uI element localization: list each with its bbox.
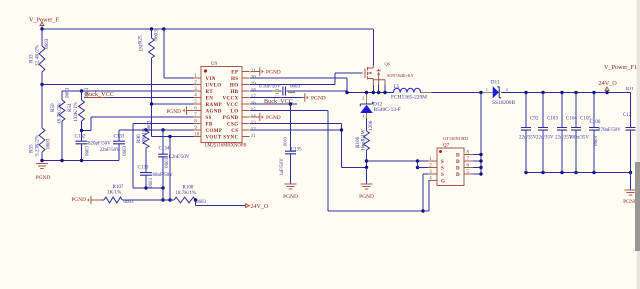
svg-text:SS: SS [206, 116, 212, 121]
wire comp bottom [133, 187, 163, 189]
svg-text:C135: C135 [291, 148, 302, 153]
pin 1 VIN [194, 77, 202, 79]
wire COMP [119, 129, 194, 131]
pin 7 D Q7 [464, 160, 473, 162]
svg-text:EN: EN [206, 96, 214, 101]
inductor L5 FCH1365-220M [393, 88, 420, 92]
svg-text:10: 10 [194, 132, 200, 137]
svg-text:0603: 0603 [85, 146, 90, 157]
svg-text:16mR/1W: 16mR/1W [361, 129, 367, 151]
wire Q6 sources to SW [372, 85, 374, 93]
svg-text:VOUT: VOUT [206, 135, 222, 140]
svg-text:22u/35V: 22u/35V [519, 136, 537, 141]
wire VCC Buck_VCC [250, 103, 297, 105]
wire to 24V_O port [194, 198, 197, 201]
wire R106 to Q7 sources [367, 160, 418, 162]
svg-text:COMP: COMP [206, 129, 223, 134]
svg-text:Buck_VCC: Buck_VCC [264, 98, 293, 105]
svg-text:LM25116MHXNOPB: LM25116MHXNOPB [205, 143, 247, 148]
svg-text:R108: R108 [183, 186, 194, 191]
op-amp U1 IC U9 LM25116 body [201, 67, 242, 143]
svg-text:2: 2 [506, 87, 508, 92]
resistor R54 [81, 91, 83, 100]
svg-text:0603: 0603 [124, 200, 135, 205]
resistor R33 [41, 29, 43, 46]
svg-text:PGND: PGND [266, 115, 281, 121]
pin 3 RT [194, 90, 202, 92]
pin 5 RAMP [194, 103, 202, 105]
svg-text:SYNC: SYNC [223, 135, 238, 140]
svg-text:1206: 1206 [368, 120, 374, 131]
capacitor C103 [542, 93, 544, 128]
svg-text:1: 1 [362, 114, 364, 119]
svg-text:VIN: VIN [206, 77, 216, 82]
svg-text:C131: C131 [275, 87, 280, 98]
wire Q7 drains [480, 93, 482, 175]
svg-text:S: S [441, 173, 444, 178]
ground PGND under R106 [361, 184, 373, 189]
svg-text:11: 11 [251, 134, 256, 139]
svg-text:24V_O: 24V_O [251, 204, 269, 210]
svg-text:C104: C104 [566, 117, 577, 122]
capacitor C131 bootstrap [250, 90, 282, 92]
ground PGND under C135 [285, 184, 297, 189]
wire CS [250, 129, 342, 131]
svg-text:0603: 0603 [147, 120, 153, 131]
svg-text:LO: LO [230, 109, 238, 114]
pin 4 G Q7 [428, 180, 437, 182]
wire FB net [133, 123, 194, 125]
transistor Q7 GT130N10D3 body [437, 148, 464, 186]
svg-text:C132: C132 [75, 135, 86, 140]
pin 7 SS [194, 116, 202, 118]
svg-text:HO: HO [230, 83, 239, 88]
svg-text:Q7: Q7 [443, 144, 450, 149]
svg-text:Q6: Q6 [385, 62, 391, 67]
svg-text:B540C-13-F: B540C-13-F [374, 107, 401, 113]
pin 8 FB [194, 123, 202, 125]
transistor Q6 [364, 69, 366, 79]
svg-text:V_Power_F1: V_Power_F1 [604, 64, 637, 71]
pin 11 SYNC [242, 136, 250, 138]
pin 17 VCCX [242, 97, 250, 99]
wire top rail VIN [42, 28, 373, 30]
pin 5 D Q7 [464, 173, 473, 175]
svg-text:R50: R50 [50, 103, 56, 112]
svg-text:32.4K/2%: 32.4K/2% [35, 44, 41, 66]
svg-text:18.7K/1%: 18.7K/1% [176, 191, 196, 196]
capacitor C134 [162, 130, 164, 154]
pin 2 UVLO [194, 84, 202, 86]
pin 6 AGND [194, 110, 202, 112]
resistor R106 [364, 131, 370, 150]
svg-text:2: 2 [362, 96, 364, 101]
pin 9 COMP [194, 129, 202, 131]
svg-text:18.7K/2%: 18.7K/2% [57, 102, 63, 124]
pin 1 S Q7 [428, 160, 437, 162]
wire Q7 pin3 [423, 173, 428, 175]
wire SS jog [91, 116, 194, 118]
svg-text:R107: R107 [113, 185, 124, 190]
capacitor C104 [561, 93, 563, 128]
svg-text:C133: C133 [114, 135, 125, 140]
wire CSG [250, 123, 342, 125]
svg-text:0603: 0603 [149, 178, 154, 189]
svg-text:PGND: PGND [71, 197, 86, 203]
node top rail junctions [40, 27, 43, 30]
svg-text:CSG: CSG [227, 122, 238, 127]
wire UVLO net [42, 84, 194, 86]
port 24V_O [246, 204, 250, 208]
svg-text:GT130N10D3: GT130N10D3 [443, 136, 469, 141]
diode D11 SS10200B [483, 92, 493, 94]
pin 14 PGND [242, 116, 250, 118]
svg-text:1M: 1M [139, 44, 145, 52]
svg-text:D: D [456, 173, 460, 178]
svg-text:RT: RT [206, 90, 214, 95]
wire Q6 drain [372, 29, 374, 65]
svg-text:24V_O: 24V_O [599, 80, 618, 87]
resistor R55 [41, 85, 43, 129]
wire VOUT drop [169, 137, 171, 201]
svg-text:PGND: PGND [311, 96, 326, 102]
pin 18 HB [242, 90, 250, 92]
svg-text:D: D [456, 167, 460, 172]
svg-text:VCCX: VCCX [222, 96, 238, 101]
wire LO route to Q7 gate [327, 111, 329, 212]
svg-text:U9: U9 [211, 62, 218, 67]
svg-text:C92: C92 [530, 117, 539, 122]
pin 12 CS [242, 129, 250, 131]
svg-text:R25: R25 [138, 35, 144, 44]
capacitor C130 [145, 148, 147, 173]
svg-text:S: S [441, 160, 444, 165]
pin 3 S Q7 [428, 173, 437, 175]
svg-text:0603: 0603 [282, 136, 287, 146]
svg-text:D: D [456, 160, 460, 165]
ground PGND at VCCX pin [250, 97, 301, 99]
svg-text:C103: C103 [547, 117, 558, 122]
ground PGND at EP pin [251, 71, 260, 73]
svg-text:1K/1%: 1K/1% [107, 191, 121, 196]
svg-text:HS: HS [231, 77, 238, 82]
wire RT net [62, 90, 194, 92]
wire RAMP [152, 103, 194, 105]
svg-text:0603: 0603 [290, 85, 301, 90]
svg-text:PGND: PGND [359, 194, 374, 200]
ground PGND at PGND pin [251, 116, 260, 118]
svg-text:133K/1%: 133K/1% [73, 101, 79, 122]
svg-text:PGND: PGND [266, 70, 281, 76]
svg-text:PGND: PGND [166, 109, 181, 115]
svg-text:C134: C134 [159, 147, 170, 152]
wire L5 to D11 [421, 92, 492, 94]
ground PGND output [630, 173, 632, 191]
svg-text:L5: L5 [394, 84, 400, 90]
svg-text:V_Power_F: V_Power_F [29, 17, 59, 24]
capacitor C92 [525, 93, 527, 128]
svg-text:PGND: PGND [223, 116, 239, 121]
pin 8 D Q7 [464, 154, 473, 156]
resistor R25 [151, 29, 153, 38]
svg-text:VCC: VCC [226, 103, 238, 108]
svg-text:R11: R11 [626, 86, 634, 91]
capacitor C135 [290, 104, 292, 151]
svg-text:UVLO: UVLO [206, 83, 222, 88]
svg-text:D11: D11 [491, 80, 500, 86]
capacitor C106 [593, 93, 595, 128]
diode D12 B540C-13-F [366, 93, 368, 105]
svg-text:1.2nF/50V: 1.2nF/50V [168, 155, 190, 160]
pin 16 VCC [242, 103, 250, 105]
svg-text:22nF/50V: 22nF/50V [100, 148, 121, 153]
pin 2 S Q7 [428, 167, 437, 169]
pin 19 HO [242, 84, 250, 86]
capacitor C12 [630, 93, 632, 128]
svg-text:HB: HB [230, 90, 238, 95]
wire R106 to PGND [366, 167, 368, 184]
capacitor C132 [81, 131, 83, 142]
wire VIN pin drop [163, 29, 165, 78]
wire HO to gate [250, 84, 335, 86]
svg-text:C12: C12 [623, 113, 632, 118]
capacitor C105 [575, 93, 577, 128]
svg-text:0603: 0603 [165, 158, 170, 169]
svg-text:5.23K/2%: 5.23K/2% [35, 134, 41, 156]
svg-text:C106: C106 [590, 120, 601, 125]
svg-text:0603: 0603 [46, 138, 52, 149]
resistor R107 [91, 199, 102, 201]
resistor R50 [61, 91, 63, 100]
wire ground rail left [42, 160, 119, 162]
svg-text:RAMP: RAMP [206, 103, 223, 108]
svg-text:PGND: PGND [283, 194, 298, 200]
svg-text:G: G [441, 180, 445, 185]
pin 6 D Q7 [464, 167, 473, 169]
svg-text:D: D [456, 154, 460, 159]
resistor R108 [174, 197, 196, 203]
scrollbar [637, 0, 640, 289]
svg-text:AON7264E+KY: AON7264E+KY [387, 73, 414, 78]
svg-text:100u/35V: 100u/35V [569, 136, 589, 141]
pin 21 EP [242, 71, 250, 73]
pin 15 LO [242, 110, 250, 112]
svg-text:FCH1365-220M: FCH1365-220M [391, 95, 427, 101]
wire SW node [347, 92, 393, 94]
svg-text:Buck_VCC: Buck_VCC [85, 91, 114, 98]
svg-text:EP: EP [231, 70, 238, 75]
svg-text:0603: 0603 [196, 200, 207, 205]
wire between R107 R108 [122, 199, 174, 201]
ground PGND left [36, 164, 48, 169]
wire VOUT [152, 136, 194, 138]
svg-text:22u/35V: 22u/35V [536, 136, 554, 141]
svg-text:AGND: AGND [206, 109, 222, 114]
svg-text:0603: 0603 [154, 30, 160, 41]
svg-text:FB: FB [206, 122, 213, 127]
pin 4 EN [194, 97, 202, 99]
resistor R96 [144, 128, 147, 131]
capacitor C133 [118, 130, 120, 141]
svg-text:470nF/50V: 470nF/50V [598, 128, 621, 133]
svg-text:CS: CS [231, 129, 238, 134]
svg-text:SS10200B: SS10200B [492, 100, 515, 106]
svg-text:1uF/50V: 1uF/50V [280, 158, 285, 176]
pin 20 HS [242, 77, 250, 79]
wire EN / Buck_VCC net [84, 97, 194, 99]
pin 13 CSG [242, 123, 250, 125]
svg-text:C130: C130 [138, 166, 149, 171]
wire LO [250, 110, 328, 112]
svg-text:PGND: PGND [36, 175, 51, 181]
svg-text:0603: 0603 [123, 146, 128, 157]
svg-text:S: S [441, 167, 444, 172]
wire output bottom rail [526, 172, 631, 174]
svg-text:0603: 0603 [594, 136, 599, 147]
svg-text:0603: 0603 [65, 87, 71, 98]
pin 10 VOUT [194, 136, 202, 138]
svg-text:1: 1 [486, 87, 488, 92]
wire HS [250, 77, 347, 79]
svg-text:0603: 0603 [44, 38, 50, 49]
wire output rail [502, 92, 631, 94]
svg-text:820pF/50V: 820pF/50V [88, 142, 111, 147]
